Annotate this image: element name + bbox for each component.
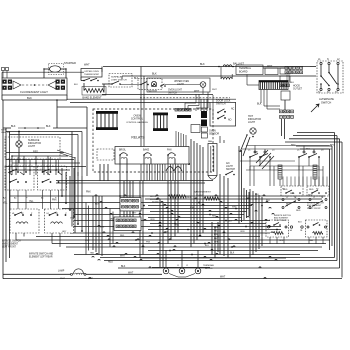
svg-text:GRY: GRY [132,213,137,215]
svg-text:TERMINAL: TERMINAL [203,264,215,267]
svg-text:RED: RED [212,216,217,218]
svg-text:OUTLET: OUTLET [293,89,303,91]
svg-text:BLK: BLK [152,73,157,76]
svg-text:WHT: WHT [267,66,273,68]
svg-text:BLK: BLK [200,63,205,66]
svg-text:BLK: BLK [298,222,302,224]
svg-text:WHT: WHT [128,272,134,274]
svg-text:SENSOR: SENSOR [209,133,219,136]
svg-text:LIGHT SW: LIGHT SW [1,132,10,134]
svg-text:ELEMENT LEFT REAR: ELEMENT LEFT REAR [29,256,53,259]
svg-text:AND ELEMENT: AND ELEMENT [274,217,289,220]
svg-text:H2: H2 [56,213,58,215]
svg-text:RED: RED [296,210,301,212]
svg-text:BLK: BLK [74,84,78,86]
svg-text:CONTROL: CONTROL [131,118,144,121]
svg-text:RED: RED [120,235,125,237]
svg-text:SWITCH: SWITCH [216,103,226,106]
svg-text:LIGHT SWITCH: LIGHT SWITCH [111,79,127,81]
svg-text:RED: RED [108,262,113,264]
svg-text:TAN: TAN [309,239,314,242]
svg-text:BOARD: BOARD [239,71,248,74]
svg-text:FLUORESCENT LIGHT: FLUORESCENT LIGHT [20,90,48,94]
svg-text:FAN: FAN [167,149,172,152]
svg-text:RED: RED [290,193,295,195]
svg-text:3000W: 3000W [196,195,202,197]
svg-text:LIGHT: LIGHT [177,84,184,86]
svg-text:J2: J2 [186,265,188,267]
svg-text:SURFACE: SURFACE [111,76,122,79]
svg-text:H2: H2 [21,213,23,215]
svg-text:H2: H2 [282,189,284,191]
svg-text:LEFT FRONT: LEFT FRONT [2,247,16,249]
svg-text:SWITCH: SWITCH [321,100,331,104]
svg-text:NC: NC [231,109,235,111]
svg-text:RED: RED [33,151,38,154]
svg-text:ALTERNATE: ALTERNATE [319,97,334,101]
svg-text:YEL: YEL [3,203,8,205]
svg-text:LIGHT: LIGHT [28,145,36,148]
svg-text:WHT: WHT [88,278,94,280]
svg-text:WHT: WHT [84,64,90,67]
svg-text:H1: H1 [47,213,49,215]
svg-text:OVEN LIGHT: OVEN LIGHT [168,90,183,92]
svg-text:H2: H2 [316,189,318,191]
svg-text:3400W: 3400W [152,202,158,204]
svg-text:ORN: ORN [150,219,155,221]
svg-text:CONTROL HARNESS: CONTROL HARNESS [126,121,148,124]
svg-text:BROIL: BROIL [150,196,157,198]
svg-text:BLOCK: BLOCK [205,268,213,270]
svg-text:BLK: BLK [228,221,233,223]
svg-text:WHT: WHT [85,240,90,242]
svg-text:LIGHT: LIGHT [248,121,256,124]
svg-text:WHT: WHT [212,89,217,91]
svg-text:TAN: TAN [90,252,94,255]
svg-text:BLU: BLU [205,245,209,247]
svg-text:BLK: BLK [11,125,16,128]
svg-text:BLK: BLK [95,204,99,206]
svg-text:SWITCH: SWITCH [148,91,157,93]
svg-text:A/C: A/C [226,162,230,165]
svg-text:ORN: ORN [240,231,245,233]
svg-text:PNK: PNK [52,200,57,202]
svg-text:BLK: BLK [290,82,295,84]
svg-text:WHT: WHT [220,277,226,279]
svg-text:UPPER OVEN: UPPER OVEN [174,81,189,83]
svg-text:BLK: BLK [46,125,51,128]
svg-text:WHT: WHT [60,278,66,280]
svg-text:YEL: YEL [214,231,218,233]
svg-text:LAMP: LAMP [58,269,65,272]
svg-text:SWITCH: SWITCH [168,92,177,94]
svg-text:NO: NO [228,120,232,122]
svg-text:BAKE: BAKE [143,149,150,152]
svg-text:THERMOSTAT: THERMOSTAT [84,73,99,76]
svg-text:BRN: BRN [100,227,105,229]
svg-text:HOOD: HOOD [293,85,300,87]
svg-text:H1: H1 [12,213,14,215]
svg-text:AND ELEMENT: AND ELEMENT [2,243,19,246]
svg-text:INFINITE SWITCH AND: INFINITE SWITCH AND [29,253,54,256]
svg-text:PNK: PNK [86,192,91,194]
svg-text:WHT: WHT [232,207,237,209]
svg-text:WHT: WHT [194,91,200,93]
svg-text:BROIL: BROIL [119,150,127,152]
svg-text:PNK: PNK [146,242,151,244]
svg-text:GRY: GRY [62,231,67,233]
svg-text:STARTER: STARTER [64,61,76,65]
svg-text:BLK: BLK [27,96,32,100]
svg-text:R1E: R1E [190,207,195,209]
svg-text:RED: RED [286,204,291,206]
svg-text:RED: RED [187,197,192,199]
svg-text:BLK: BLK [255,194,259,196]
svg-text:INFINITE SWITCH: INFINITE SWITCH [2,241,21,243]
svg-text:FAN: FAN [208,140,213,143]
svg-text:BLK: BLK [230,253,235,255]
svg-text:RIGHT REAR: RIGHT REAR [274,219,287,222]
svg-text:J1: J1 [177,265,179,267]
svg-text:BAKE ELEMENT: BAKE ELEMENT [194,191,211,194]
svg-text:BLK: BLK [121,266,126,268]
svg-text:LIGHT: LIGHT [226,166,233,168]
svg-text:UPPER OVEN: UPPER OVEN [84,71,99,73]
svg-text:RELAYS: RELAYS [131,136,145,140]
svg-text:SWITCH: SWITCH [226,169,235,171]
svg-text:RED: RED [309,189,314,191]
svg-text:MW: MW [110,219,114,221]
svg-text:WHT: WHT [120,256,126,258]
svg-text:RED: RED [330,145,335,147]
